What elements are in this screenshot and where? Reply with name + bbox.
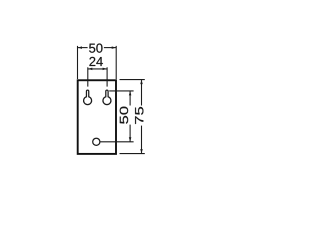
extension line top for vertical 50 from keyhole: [109, 90, 133, 92]
arrow right of 24: [103, 68, 107, 71]
plate outline: [78, 80, 116, 154]
extension line bottom for vertical 50 from hole: [100, 141, 133, 143]
extension line right for 24: [106, 67, 108, 86]
dimension line 24: [88, 68, 107, 70]
dimension line 75 upper segment: [141, 80, 143, 106]
label 50 top: [89, 44, 102, 53]
keyhole slot right: [103, 90, 111, 104]
dimension line vertical 50 lower segment: [129, 125, 131, 142]
arrow top of vertical 50: [129, 91, 132, 95]
label 75: [135, 107, 143, 124]
bottom hole: [93, 138, 100, 145]
arrow right of width 50: [112, 46, 116, 49]
dimension line vertical 50 upper segment: [129, 91, 131, 106]
extension line left for width 50: [77, 46, 79, 79]
arrow bottom of 75: [140, 149, 143, 153]
arrow top of 75: [140, 80, 143, 84]
label 50 vertical: [120, 107, 128, 124]
arrow left of width 50: [78, 46, 82, 49]
arrow bottom of vertical 50: [129, 137, 132, 141]
dimension line width 50 left segment: [78, 47, 88, 49]
keyhole slot left: [84, 90, 92, 105]
extension line bottom for 75 from plate bottom: [120, 153, 145, 155]
label 24: [89, 57, 102, 66]
dimension line width 50 right segment: [104, 47, 116, 49]
dimension line 75 lower segment: [141, 126, 143, 154]
extension line top for 75 from plate top: [120, 79, 145, 81]
extension line right for width 50: [115, 46, 117, 79]
extension line left for 24: [87, 67, 89, 86]
arrow left of 24: [88, 68, 92, 71]
